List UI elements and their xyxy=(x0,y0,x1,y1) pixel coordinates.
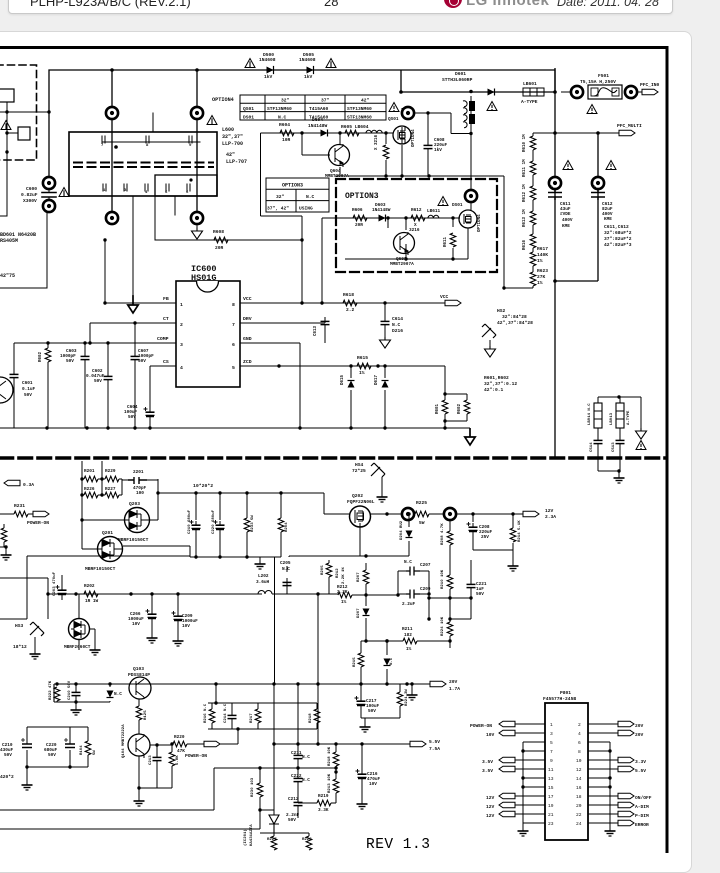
svg-text:2201: 2201 xyxy=(133,470,144,475)
diode Q252 MBRF2060CT xyxy=(64,594,101,655)
svg-text:32": 32" xyxy=(276,194,285,200)
bead LB913 xyxy=(616,403,624,428)
svg-text:400V: 400V xyxy=(562,218,573,223)
svg-text:D617: D617 xyxy=(375,374,379,385)
svg-text:3216: 3216 xyxy=(409,228,420,233)
svg-text:OPTION4: OPTION4 xyxy=(412,129,416,147)
svg-text:182: 182 xyxy=(404,633,412,638)
svg-text:N.C: N.C xyxy=(282,567,290,572)
svg-text:20V: 20V xyxy=(635,723,644,729)
svg-text:Q203: Q203 xyxy=(129,501,140,507)
svg-text:2.2: 2.2 xyxy=(346,307,355,313)
svg-text:21: 21 xyxy=(548,812,554,818)
tag PFC_MULTI xyxy=(533,123,642,136)
svg-text:VCC: VCC xyxy=(440,294,449,300)
capacitor C220b xyxy=(44,738,75,758)
svg-text:STF13NM60: STF13NM60 xyxy=(347,114,372,120)
svg-text:42": 42" xyxy=(226,152,235,158)
svg-text:LB914 N.C: LB914 N.C xyxy=(588,403,592,425)
capacitor C219 xyxy=(188,509,201,534)
TL431 KA431 xyxy=(243,684,279,846)
svg-text:5: 5 xyxy=(232,365,235,371)
svg-text:P-DIM: P-DIM xyxy=(635,813,649,819)
transformer L600 xyxy=(69,113,217,196)
svg-text:420*2: 420*2 xyxy=(0,774,14,780)
svg-text:POWER-ON: POWER-ON xyxy=(27,520,49,526)
rail 20V dots xyxy=(272,682,275,685)
svg-text:LB913: LB913 xyxy=(610,412,614,425)
warning triangle xyxy=(59,188,69,197)
svg-text:R208 4.7K: R208 4.7K xyxy=(441,523,445,545)
svg-text:2.2uF: 2.2uF xyxy=(402,602,416,607)
resistor R205 xyxy=(272,560,366,595)
svg-text:50V: 50V xyxy=(138,359,146,364)
aux winding wire xyxy=(105,196,302,303)
svg-text:F45577H-245B: F45577H-245B xyxy=(543,696,576,702)
capacitor C210b xyxy=(0,727,88,781)
svg-text:MMBT2907A: MMBT2907A xyxy=(390,262,414,267)
svg-text:3.5V: 3.5V xyxy=(482,759,493,765)
svg-text:8: 8 xyxy=(146,144,149,148)
svg-text:R210 10K: R210 10K xyxy=(441,569,445,589)
svg-text:2.3A: 2.3A xyxy=(545,514,556,520)
svg-text:0.3A: 0.3A xyxy=(23,482,34,488)
capacitor C514 xyxy=(594,436,603,448)
svg-text:LB601: LB601 xyxy=(523,81,537,87)
diode D601 top right xyxy=(399,68,557,111)
resistor R605 xyxy=(341,124,369,136)
warning triangle xyxy=(563,161,573,170)
svg-text:CS: CS xyxy=(163,359,169,365)
svg-text:ERROR: ERROR xyxy=(635,822,649,828)
ground open arrow xyxy=(128,296,138,313)
svg-text:R227: R227 xyxy=(105,487,116,492)
EMI dashed box xyxy=(0,65,37,160)
diode D505 1N4608 xyxy=(299,52,316,80)
svg-text:1R 1W: 1R 1W xyxy=(85,599,99,604)
rail Q103 20V merged xyxy=(54,684,430,702)
svg-text:STTH3L060RP: STTH3L060RP xyxy=(442,77,473,83)
svg-text:FB: FB xyxy=(163,296,169,302)
resistor R202 xyxy=(84,584,99,604)
ground arrow main xyxy=(465,428,475,445)
svg-text:12V: 12V xyxy=(486,795,495,801)
heatsink HS3 xyxy=(13,622,44,659)
svg-text:12V: 12V xyxy=(486,813,495,819)
svg-text:3.6uH: 3.6uH xyxy=(256,580,270,585)
svg-text:C213: C213 xyxy=(149,755,153,765)
tag 5.5V xyxy=(410,739,440,752)
resistor R214 xyxy=(510,520,522,542)
ground Q104 xyxy=(134,756,158,806)
trio R216 C214 R217 xyxy=(204,684,320,729)
current sense R601 xyxy=(436,366,467,428)
svg-text:32":68uF*2: 32":68uF*2 xyxy=(604,230,632,236)
svg-text:R202: R202 xyxy=(84,584,95,589)
svg-text:50V: 50V xyxy=(368,709,376,714)
capacitor C221 xyxy=(427,560,487,621)
ground triangle xyxy=(636,428,647,439)
warning triangle xyxy=(245,59,255,68)
svg-text:C613: C613 xyxy=(314,325,318,336)
resistor R221 xyxy=(360,684,410,732)
rail lower xyxy=(190,557,281,560)
OPTION3 inner circuit xyxy=(322,190,482,303)
svg-text:C207: C207 xyxy=(420,563,431,568)
resistor R230 xyxy=(251,768,263,829)
svg-text:R214 5.1K: R214 5.1K xyxy=(518,520,522,542)
wire cap columns xyxy=(190,493,281,570)
main gnd rail xyxy=(0,427,470,429)
svg-text:27K: 27K xyxy=(537,274,546,280)
svg-text:R227: R227 xyxy=(267,838,277,842)
svg-text:R219: R219 xyxy=(318,794,329,799)
svg-text:50V: 50V xyxy=(128,415,136,420)
current sense R602 xyxy=(458,400,470,414)
svg-text:R231: R231 xyxy=(14,503,25,509)
svg-text:R217: R217 xyxy=(250,713,254,723)
svg-text:C601: C601 xyxy=(22,381,33,386)
svg-text:R618: R618 xyxy=(343,292,354,298)
capacitor C223 xyxy=(402,587,431,607)
svg-text:18: 18 xyxy=(576,794,582,800)
svg-text:R604: R604 xyxy=(279,122,290,128)
capacitor C211 xyxy=(291,744,310,775)
bead cluster LB914 LB913 xyxy=(588,395,647,483)
svg-text:R213 10K: R213 10K xyxy=(328,773,332,793)
svg-text:FQPF22N06L: FQPF22N06L xyxy=(347,499,375,505)
rail extend xyxy=(352,571,429,619)
svg-text:R606: R606 xyxy=(352,208,363,213)
svg-text:KA431AZTA: KA431AZTA xyxy=(250,824,254,846)
resistor R612b xyxy=(523,175,536,202)
svg-text:2: 2 xyxy=(180,322,183,328)
warning triangle xyxy=(389,103,399,112)
svg-text:42": 42" xyxy=(361,98,370,104)
warning triangle xyxy=(606,161,616,170)
tag 20V xyxy=(430,679,460,692)
resistor R623 xyxy=(530,266,548,286)
svg-text:3.3K: 3.3K xyxy=(318,808,329,813)
svg-text:6: 6 xyxy=(186,191,189,195)
capacitor C602 xyxy=(86,341,113,428)
resistor R227b xyxy=(260,833,309,850)
svg-text:D615: D615 xyxy=(341,374,345,385)
transistor Q600 left edge xyxy=(0,377,13,403)
svg-text:1kV: 1kV xyxy=(304,74,313,80)
svg-text:2.2K 1%: 2.2K 1% xyxy=(342,567,346,584)
diode D615 xyxy=(341,364,355,428)
mosfet Q601 xyxy=(388,117,416,147)
transformer winding ticks xyxy=(102,136,192,191)
svg-text:9: 9 xyxy=(189,144,192,148)
svg-text:R617: R617 xyxy=(537,246,548,252)
svg-text:D601: D601 xyxy=(455,71,466,77)
svg-text:R218 10K: R218 10K xyxy=(328,746,332,766)
header bar xyxy=(8,0,673,14)
svg-text:1%: 1% xyxy=(359,370,365,376)
svg-text:R229: R229 xyxy=(105,469,116,474)
terminal bottom pair xyxy=(106,212,118,224)
svg-text:R233 5W: R233 5W xyxy=(251,515,255,532)
svg-text:20V: 20V xyxy=(635,732,644,738)
tag POWER-ON b xyxy=(185,727,240,759)
main B+ bus xyxy=(555,92,598,458)
resistor R208 xyxy=(441,520,453,619)
svg-text:N.C: N.C xyxy=(302,755,310,760)
capacitor C216 xyxy=(356,744,381,809)
svg-text:R602: R602 xyxy=(458,403,462,414)
svg-text:12V: 12V xyxy=(545,508,554,514)
svg-text:R104: R104 xyxy=(80,745,84,755)
svg-text:R623: R623 xyxy=(537,268,548,274)
svg-text:LB611: LB611 xyxy=(427,209,441,214)
IC600 HS01G xyxy=(157,264,252,387)
svg-text:5.5V: 5.5V xyxy=(635,768,646,774)
transistor Q104 xyxy=(122,724,150,758)
svg-text:9: 9 xyxy=(550,758,553,764)
capacitor C203 xyxy=(53,571,67,600)
inductor LB611 xyxy=(428,215,439,218)
resistor R207 xyxy=(357,563,369,597)
bead LB914 xyxy=(594,403,602,428)
svg-text:QS01: QS01 xyxy=(388,117,399,122)
capacitor C205nc xyxy=(280,561,292,594)
svg-text:A-TYPE: A-TYPE xyxy=(627,410,631,425)
IC pin wires left xyxy=(14,303,176,366)
ground 20V rail xyxy=(407,682,418,700)
resistor R222 xyxy=(49,680,60,702)
svg-text:5: 5 xyxy=(165,191,168,195)
resistor R604 xyxy=(279,122,294,143)
resistor R210 xyxy=(441,569,453,589)
svg-text:C611,C612: C611,C612 xyxy=(604,224,629,230)
resistor R611b xyxy=(523,150,536,177)
resistor R611 xyxy=(444,233,456,247)
capacitor C207 xyxy=(404,560,431,576)
svg-text:2.2K: 2.2K xyxy=(337,590,348,595)
svg-text:R125: R125 xyxy=(144,710,148,720)
resistor R124 xyxy=(157,742,180,788)
svg-text:5W: 5W xyxy=(93,750,97,755)
svg-text:R205: R205 xyxy=(321,565,325,575)
svg-text:10R: 10R xyxy=(282,137,291,143)
resistor R608 xyxy=(213,229,228,251)
svg-text:R616: R616 xyxy=(523,239,527,250)
capacitor C613 xyxy=(314,317,330,343)
resistor R612 xyxy=(409,208,425,233)
svg-text:R216 N.C: R216 N.C xyxy=(204,703,208,723)
svg-text:23: 23 xyxy=(548,821,554,827)
svg-text:C513: C513 xyxy=(612,442,616,452)
svg-text:7: 7 xyxy=(232,322,235,328)
svg-text:C214 N.C: C214 N.C xyxy=(224,703,228,723)
svg-text:7: 7 xyxy=(550,749,553,755)
resistor R204 xyxy=(278,518,289,532)
svg-text:HS4: HS4 xyxy=(355,462,364,468)
svg-text:#VDE: #VDE xyxy=(560,212,571,217)
svg-text:1kV: 1kV xyxy=(434,148,442,153)
svg-text:R226: R226 xyxy=(84,487,95,492)
fuse F501 xyxy=(561,73,642,114)
capacitor C220 xyxy=(212,509,225,534)
svg-text:R615: R615 xyxy=(357,355,368,361)
wire xyxy=(0,212,47,288)
svg-text:R224 10K: R224 10K xyxy=(441,616,445,636)
svg-text:13: 13 xyxy=(548,776,554,782)
wire C211 feed xyxy=(297,684,299,744)
OPTION3 table xyxy=(266,178,329,212)
svg-text:Q201: Q201 xyxy=(102,530,113,536)
tag POWER-ON xyxy=(27,511,49,526)
svg-text:PFC_IN0: PFC_IN0 xyxy=(640,82,660,88)
tag 0.3A xyxy=(4,480,34,488)
svg-text:1: 1 xyxy=(180,302,183,308)
svg-text:R605 LB604: R605 LB604 xyxy=(341,124,369,130)
svg-text:ZCD: ZCD xyxy=(243,359,252,365)
svg-text:12V: 12V xyxy=(486,804,495,810)
tag 12V xyxy=(523,508,556,520)
svg-text:C209: C209 xyxy=(420,587,431,592)
svg-text:50V: 50V xyxy=(24,393,32,398)
svg-text:10V: 10V xyxy=(132,622,140,627)
mosfet Q602 xyxy=(452,203,482,232)
svg-text:22: 22 xyxy=(576,812,582,818)
svg-text:20: 20 xyxy=(576,803,582,809)
svg-text:10V: 10V xyxy=(369,782,377,787)
svg-text:HS2: HS2 xyxy=(497,308,506,314)
svg-text:11: 11 xyxy=(548,767,554,773)
svg-text:Q104 MMBT2222A: Q104 MMBT2222A xyxy=(122,724,126,758)
svg-text:12: 12 xyxy=(576,767,582,773)
svg-text:42"75: 42"75 xyxy=(0,273,15,279)
section divider dashed line xyxy=(0,456,666,460)
svg-text:5: 5 xyxy=(550,740,553,746)
diode D617 zener xyxy=(375,364,445,428)
svg-text:C614: C614 xyxy=(392,316,403,322)
svg-text:72*25: 72*25 xyxy=(352,468,366,474)
transistor Q603 xyxy=(390,232,415,267)
capacitor C607 xyxy=(131,321,155,428)
resistor R233 xyxy=(244,515,255,532)
svg-text:OPTION3: OPTION3 xyxy=(345,192,379,201)
terminal T2 xyxy=(444,508,456,520)
resistor R218 xyxy=(328,744,339,772)
svg-text:N.C: N.C xyxy=(390,657,394,665)
svg-text:MBRF10150CT: MBRF10150CT xyxy=(118,537,149,543)
diode D205 xyxy=(384,639,395,684)
resistor R606 xyxy=(375,134,389,159)
svg-text:ON/OFF: ON/OFF xyxy=(635,795,652,801)
wire feedback net xyxy=(0,768,336,829)
svg-text:7.5A: 7.5A xyxy=(429,746,440,752)
svg-text:4: 4 xyxy=(145,191,148,195)
svg-text:1N4608: 1N4608 xyxy=(259,57,276,63)
svg-text:C222: C222 xyxy=(291,774,302,779)
svg-text:R611: R611 xyxy=(444,236,448,247)
svg-text:C210 50V: C210 50V xyxy=(68,680,72,700)
svg-text:N.C: N.C xyxy=(404,560,412,565)
resistor chain R610 xyxy=(523,134,536,152)
svg-text:4: 4 xyxy=(578,731,581,737)
svg-text:7: 7 xyxy=(101,144,104,148)
svg-text:19: 19 xyxy=(548,803,554,809)
svg-text:5W: 5W xyxy=(419,520,425,526)
svg-text:COMP: COMP xyxy=(157,336,169,342)
svg-text:42":82uF*3: 42":82uF*3 xyxy=(604,242,632,248)
capacitor C614 xyxy=(380,301,404,348)
svg-text:R201: R201 xyxy=(84,469,95,474)
diode D500 1N4608 xyxy=(259,52,276,80)
svg-text:R601: R601 xyxy=(436,403,440,414)
resistor R613 xyxy=(523,200,536,227)
svg-text:Q202: Q202 xyxy=(352,493,363,499)
svg-text:32":84*28: 32":84*28 xyxy=(502,314,527,320)
svg-text:R612 1M: R612 1M xyxy=(523,184,527,202)
svg-text:STF13NM60: STF13NM60 xyxy=(267,106,292,112)
svg-text:R207: R207 xyxy=(357,572,361,582)
capacitor C210 xyxy=(68,680,81,702)
svg-text:10V: 10V xyxy=(182,624,190,629)
pin numbers xyxy=(548,722,582,827)
svg-text:QS01: QS01 xyxy=(243,106,254,112)
svg-text:42":0.1: 42":0.1 xyxy=(484,387,504,393)
svg-text:DS01: DS01 xyxy=(452,203,463,208)
wire CT xyxy=(89,323,91,343)
OPTION4 table xyxy=(212,95,386,120)
svg-text:37": 37" xyxy=(321,98,330,104)
resistor R213 xyxy=(328,770,339,803)
svg-text:R610 1M: R610 1M xyxy=(523,134,527,152)
svg-text:REV 1.3: REV 1.3 xyxy=(366,837,430,853)
svg-text:MBRF10150CT: MBRF10150CT xyxy=(85,566,116,572)
ground xyxy=(75,702,77,706)
wire to ground arrow xyxy=(132,215,134,296)
resistor R215 xyxy=(353,641,381,684)
svg-text:C205: C205 xyxy=(280,561,291,566)
svg-text:LLP-700: LLP-700 xyxy=(222,141,243,147)
svg-text:15: 15 xyxy=(548,785,554,791)
svg-text:C514: C514 xyxy=(590,442,594,452)
transformer core dashes xyxy=(74,163,213,168)
svg-text:R601,R602: R601,R602 xyxy=(484,375,509,381)
wire node xyxy=(0,112,49,133)
right ground bus xyxy=(609,742,611,827)
svg-text:1.7A: 1.7A xyxy=(449,686,460,692)
ground xyxy=(255,560,266,569)
ground xyxy=(22,781,33,790)
diode D207 xyxy=(357,595,389,643)
svg-text:1: 1 xyxy=(550,722,553,728)
resistor R224 xyxy=(441,616,453,648)
svg-text:T415A60: T415A60 xyxy=(309,106,329,112)
left tags xyxy=(470,721,515,729)
inductor L601 xyxy=(463,101,475,128)
svg-text:R218: R218 xyxy=(309,713,313,723)
svg-text:(IC201): (IC201) xyxy=(243,829,248,846)
capacitor C604 xyxy=(124,366,155,428)
terminal DS01 xyxy=(465,190,477,202)
resistor R104 xyxy=(80,741,97,755)
svg-text:R602: R602 xyxy=(39,351,43,362)
resistor R618 xyxy=(343,292,357,313)
svg-text:20R: 20R xyxy=(215,245,224,251)
long vertical feeds xyxy=(275,570,319,744)
svg-text:C211: C211 xyxy=(291,751,302,756)
svg-text:L202: L202 xyxy=(258,574,269,579)
filter block xyxy=(0,89,14,102)
ground xyxy=(196,224,198,228)
